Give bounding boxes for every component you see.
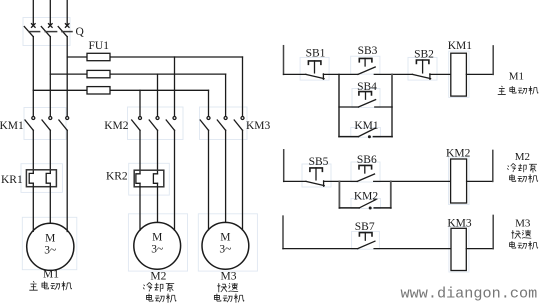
helper box KM2 aux	[351, 199, 381, 209]
helper box KR2	[129, 163, 170, 195]
helper box SB7	[352, 231, 380, 249]
wire SB2 to KM1 coil	[430, 73, 451, 75]
wire SB5 to branch node	[324, 180, 358, 182]
wire phase L2 top	[49, 0, 51, 26]
label 主电动机 under M1	[29, 281, 71, 290]
wire drop to KM3 pole 3	[242, 57, 244, 116]
svg-text:SB7: SB7	[355, 221, 375, 233]
wire KM1 pole 2 to KR1	[49, 130, 51, 173]
branch right vertical row 1	[391, 74, 393, 136]
svg-text:3~: 3~	[44, 245, 56, 257]
motor M2 circle	[134, 222, 181, 269]
wire KM1 aux branch left	[339, 136, 358, 138]
motor M1 circle	[27, 223, 74, 270]
contactor KM2 auxiliary contact (NO self-hold)	[359, 200, 376, 210]
wire drop to KM3 pole 2	[225, 74, 227, 116]
svg-text:KM2: KM2	[354, 191, 379, 203]
thermal relay KR2 heater 1	[136, 174, 140, 184]
thermal relay KR1 heater 2	[46, 173, 50, 183]
wire KM2 pole 3 to motor M2	[174, 130, 176, 230]
contact mark x pole 2 of Q	[49, 24, 53, 28]
label 电动机 under M3	[214, 294, 244, 303]
fuse FU1 element 3	[87, 87, 110, 94]
helper box KM1 aux	[351, 128, 381, 138]
wire fuse row 2	[50, 73, 225, 75]
wire drop to KM2 pole 2	[157, 74, 159, 116]
wire SB7 to KM3 coil	[374, 248, 451, 250]
control row 1 left feeder stub	[283, 46, 285, 75]
wire fuse row 1	[67, 56, 242, 58]
helper box SB4	[352, 89, 380, 108]
motor M3 circle	[202, 222, 249, 269]
svg-text:SB6: SB6	[357, 154, 377, 166]
wire KM1 pole 3 to motor M1	[66, 130, 68, 231]
helper box KM3 contacts	[200, 107, 248, 140]
pushbutton SB3 (NO start)	[358, 58, 375, 74]
helper box SB5	[302, 164, 331, 187]
svg-text:M3: M3	[515, 217, 531, 229]
svg-text:SB2: SB2	[414, 49, 434, 61]
control row 2 right feeder stub	[492, 150, 494, 181]
switch Q blade pole 3	[58, 27, 67, 37]
svg-text:M2: M2	[515, 151, 530, 163]
svg-text:SB3: SB3	[358, 45, 378, 57]
label 快速 under M3	[218, 283, 239, 292]
wire KR1 to motor M1 pole 2	[49, 183, 51, 223]
contactor KM3 main contact pole 1	[200, 117, 210, 131]
svg-text:KM2: KM2	[104, 120, 129, 132]
switch Q blade pole 1	[24, 27, 33, 37]
svg-text:3~: 3~	[219, 244, 231, 256]
helper box Q	[23, 18, 70, 46]
thermal relay KR1 heater 1	[29, 173, 33, 183]
svg-text:M: M	[152, 231, 162, 243]
wire L3 switch to KM1	[66, 37, 68, 117]
wire KM2 aux branch right	[374, 207, 391, 209]
svg-text:FU1: FU1	[89, 40, 110, 52]
wire KM1 coil to right stub	[466, 73, 493, 75]
wire SB4 branch left	[339, 106, 358, 108]
wire drop to KM3 pole 1	[208, 90, 210, 116]
helper box KM2 coil	[449, 157, 470, 205]
svg-text:M: M	[220, 231, 230, 243]
wire drop to KM2 pole 1	[139, 90, 141, 116]
wire KM2 aux branch left	[339, 207, 359, 209]
svg-text:M2: M2	[150, 271, 166, 283]
wire KR2 to motor M2 pole 2	[157, 183, 159, 222]
wire row 1 stub to SB1	[284, 73, 306, 75]
label 主电动机 right	[498, 86, 538, 95]
pushbutton SB5 (NC stop)	[306, 168, 324, 186]
control row 1 right feeder stub	[492, 46, 494, 75]
contactor KM3 main contact pole 3	[234, 117, 244, 131]
wire row 2 stub to SB5	[284, 180, 306, 182]
wire fuse row 3	[33, 89, 208, 91]
helper box KR1	[21, 164, 62, 193]
contact mark x pole 1 of Q	[32, 24, 36, 28]
helper box KM3 coil	[449, 226, 469, 272]
contactor coil KM1	[451, 53, 467, 96]
contactor coil KM3	[451, 228, 466, 270]
wire L2 switch to KM1	[49, 37, 51, 117]
svg-text:KM1: KM1	[0, 120, 24, 132]
label 电动机 right row 3	[510, 241, 538, 250]
svg-text:KR2: KR2	[106, 171, 128, 183]
helper box SB3	[351, 56, 380, 74]
helper box SB2	[408, 57, 437, 80]
fuse FU1 element 1	[87, 53, 110, 60]
contactor KM1 main contact pole 2	[42, 117, 52, 131]
contactor KM1 main contact pole 3	[59, 117, 69, 131]
wire SB6 to KM2 coil	[374, 180, 451, 182]
pushbutton SB4 (NO)	[358, 92, 375, 107]
svg-text:KM3: KM3	[246, 120, 271, 132]
switch Q linkage dash 2	[45, 31, 56, 33]
thermal relay KR2 body	[134, 170, 164, 187]
wire KM2 coil to right stub	[467, 180, 493, 182]
contactor KM1 auxiliary contact (NO self-hold)	[358, 128, 375, 138]
helper box SB6	[351, 162, 380, 182]
branch left vertical row 2	[338, 181, 340, 208]
branch left vertical row 1	[338, 74, 340, 136]
helper box M2	[128, 214, 187, 271]
svg-text:M3: M3	[221, 271, 237, 283]
svg-text:SB4: SB4	[357, 81, 377, 93]
wire drop to KM2 pole 3	[174, 57, 176, 116]
label 冷却泵 under M2	[143, 282, 174, 292]
contact mark x pole 3 of Q	[65, 24, 69, 28]
label 冷却泵 right	[507, 163, 537, 172]
svg-text:KM2: KM2	[446, 148, 471, 160]
pushbutton SB2 (NC)	[412, 60, 430, 79]
wire phase L3 top	[66, 0, 68, 26]
svg-text:M: M	[45, 232, 55, 244]
contactor KM2 main contact pole 1	[132, 117, 142, 131]
svg-text:KM1: KM1	[354, 120, 379, 132]
branch right vertical row 2	[390, 181, 392, 208]
wire SB3 to SB2	[374, 73, 412, 75]
contactor KM1 main contact pole 1	[25, 117, 35, 131]
wire KM3 coil to right stub	[466, 248, 493, 250]
wire L1 switch to KM1	[32, 37, 34, 117]
label 快速 right	[512, 230, 532, 239]
svg-text:Q: Q	[76, 26, 85, 38]
switch Q linkage dash 3	[62, 31, 72, 33]
wire KM2 pole 1 to KR2	[139, 130, 141, 174]
label 电动机 under M2	[146, 294, 176, 303]
wire KM1 aux branch right	[373, 136, 392, 138]
thermal relay KR2 heater 2	[153, 174, 157, 184]
svg-text:www.diangon.com: www.diangon.com	[401, 284, 538, 302]
wire phase L1 top	[32, 0, 34, 26]
contactor coil KM2	[451, 159, 467, 203]
helper box M3	[198, 214, 257, 271]
wire KM2 pole 2 to KR2	[157, 130, 159, 174]
helper box M1	[22, 217, 77, 269]
wire SB4 branch right	[375, 106, 392, 108]
control row 3 left feeder stub	[282, 216, 284, 249]
control row 2 left feeder stub	[283, 150, 285, 182]
helper box SB1	[300, 57, 329, 80]
helper box KM1 coil	[449, 51, 469, 97]
svg-text:M1: M1	[509, 71, 524, 83]
pushbutton SB1 (NC stop)	[306, 61, 324, 79]
label 电动机 right row 2	[510, 174, 538, 183]
switch Q blade pole 2	[41, 27, 50, 37]
wire row 3 stub to SB7	[283, 248, 358, 250]
svg-text:SB1: SB1	[306, 48, 326, 60]
wire KM3 pole 1 to motor M3	[208, 130, 210, 230]
pushbutton SB6 (NO start)	[357, 165, 374, 181]
wire KM3 pole 2 to motor M3	[225, 130, 227, 222]
contactor KM2 main contact pole 3	[166, 117, 176, 131]
wire KM1 pole 1 to KR1	[32, 130, 34, 173]
control row 3 right feeder stub	[492, 215, 494, 248]
wire KR1 to motor M1 pole 1	[32, 183, 34, 231]
contactor KM2 main contact pole 2	[149, 117, 159, 131]
wire KR2 to motor M2 pole 1	[139, 183, 141, 230]
contactor KM3 main contact pole 2	[217, 117, 227, 131]
svg-text:KM1: KM1	[448, 40, 473, 52]
pushbutton SB7 (NO)	[358, 233, 375, 249]
svg-text:KM3: KM3	[447, 218, 472, 230]
thermal relay KR1 body	[26, 170, 56, 187]
fuse FU1 element 2	[87, 70, 110, 77]
svg-text:M1: M1	[43, 269, 59, 281]
wire KM3 pole 3 to motor M3	[242, 130, 244, 230]
svg-text:KR1: KR1	[1, 174, 23, 186]
switch Q linkage dash 1	[29, 31, 40, 33]
helper box KM1 contacts	[24, 108, 66, 140]
helper box KM2 contacts	[128, 107, 184, 140]
svg-text:SB5: SB5	[309, 156, 329, 168]
wire SB1 to branch node	[323, 73, 358, 75]
svg-text:3~: 3~	[151, 244, 163, 256]
